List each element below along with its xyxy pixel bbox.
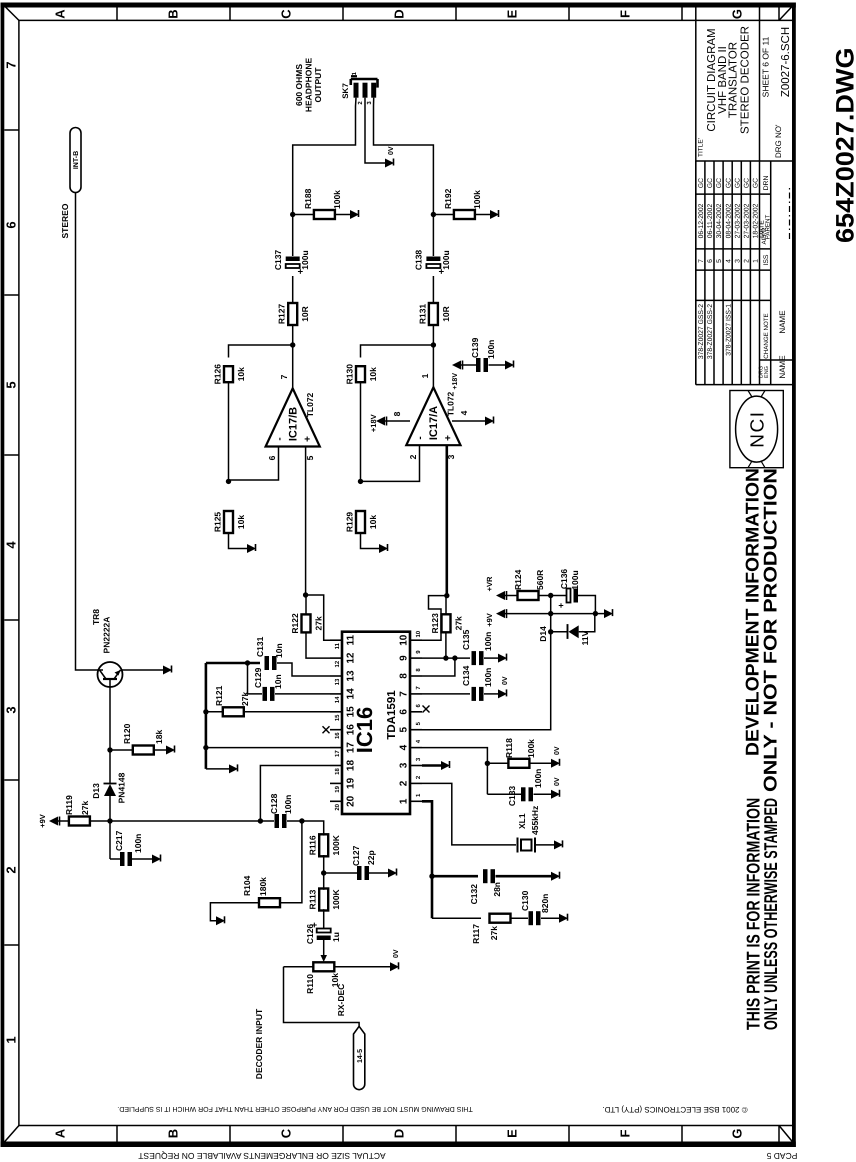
svg-text:ONLY UNLESS OTHERWISE STAMPED: ONLY UNLESS OTHERWISE STAMPED bbox=[760, 798, 781, 1030]
svg-text:600 OHMS: 600 OHMS bbox=[294, 64, 304, 106]
wire C131 to pin13 bbox=[277, 663, 330, 676]
svg-text:IC17/B: IC17/B bbox=[288, 407, 300, 441]
wire R104 to ground bbox=[210, 903, 259, 921]
svg-text:CHANGE NOTE: CHANGE NOTE bbox=[763, 313, 770, 358]
transistor TR8 bbox=[98, 662, 123, 687]
resistor R126 bbox=[224, 366, 233, 382]
capacitor C135 bbox=[472, 651, 477, 665]
wire C126 to R110 with arrow bbox=[323, 940, 325, 959]
svg-text:C127: C127 bbox=[351, 845, 361, 866]
wire C136 drop bbox=[551, 595, 566, 597]
wire pin11 jog bbox=[306, 595, 330, 640]
svg-text:100n: 100n bbox=[483, 632, 493, 651]
svg-text:16: 16 bbox=[346, 724, 357, 736]
node R188 bbox=[290, 212, 295, 217]
wire C127 to ground bbox=[369, 872, 388, 874]
wire pin2 route bbox=[422, 783, 516, 845]
svg-text:4: 4 bbox=[725, 259, 732, 263]
svg-text:5: 5 bbox=[415, 721, 422, 725]
svg-text:D13: D13 bbox=[91, 783, 101, 799]
resistor R110 bbox=[313, 962, 334, 971]
svg-text:R188: R188 bbox=[303, 188, 313, 209]
svg-text:3: 3 bbox=[399, 762, 410, 768]
capacitor C127 bbox=[357, 866, 362, 880]
svg-text:455kHz: 455kHz bbox=[530, 806, 540, 835]
wire R192 ground bbox=[475, 214, 490, 216]
svg-text:11: 11 bbox=[334, 642, 341, 649]
svg-text:C136: C136 bbox=[559, 569, 569, 590]
svg-text:12: 12 bbox=[334, 660, 341, 667]
svg-text:TRANSLATOR: TRANSLATOR bbox=[728, 42, 740, 118]
wire C132 drop bbox=[432, 875, 478, 878]
node C131 branch bbox=[245, 660, 250, 665]
svg-text:27k: 27k bbox=[80, 801, 90, 815]
svg-text:17: 17 bbox=[334, 750, 341, 757]
wire R122 pin12 bbox=[306, 643, 330, 658]
svg-text:C131: C131 bbox=[255, 636, 265, 657]
capacitor C131 bbox=[265, 656, 270, 670]
svg-text:DECODER INPUT: DECODER INPUT bbox=[254, 1008, 264, 1079]
wire +9V column bbox=[505, 613, 551, 615]
svg-text:1: 1 bbox=[4, 1036, 19, 1043]
svg-text:C138: C138 bbox=[414, 250, 424, 271]
wire R192 bbox=[433, 214, 454, 216]
svg-text:C217: C217 bbox=[114, 830, 124, 851]
svg-text:16: 16 bbox=[334, 732, 341, 739]
op-amp IC17/A TL072 bbox=[406, 387, 460, 445]
svg-text:13: 13 bbox=[346, 670, 357, 682]
svg-text:C139: C139 bbox=[470, 337, 480, 358]
resistor R113 bbox=[319, 889, 328, 911]
svg-text:22p: 22p bbox=[366, 850, 376, 865]
title block outline bbox=[696, 384, 792, 386]
svg-text:+18V: +18V bbox=[452, 373, 459, 390]
resistor R192 bbox=[454, 210, 475, 219]
svg-text:27-03-2002: 27-03-2002 bbox=[734, 203, 741, 238]
svg-text:4: 4 bbox=[4, 541, 19, 549]
ground R188 bbox=[350, 210, 359, 219]
svg-text:10R: 10R bbox=[441, 306, 451, 322]
svg-text:7: 7 bbox=[415, 686, 422, 690]
wire pin9 column bbox=[422, 657, 470, 659]
wire C133 branch bbox=[487, 793, 521, 795]
svg-text:E: E bbox=[505, 9, 520, 18]
wire R121 to pin15 bbox=[244, 711, 330, 713]
svg-text:PN2222A: PN2222A bbox=[102, 617, 112, 654]
resistor R123 bbox=[442, 614, 451, 632]
svg-text:R192: R192 bbox=[443, 188, 453, 209]
svg-text:6: 6 bbox=[707, 259, 714, 263]
wire node to C217 bbox=[109, 821, 111, 859]
svg-text:RX-DEC: RX-DEC bbox=[336, 984, 346, 1017]
svg-text:6: 6 bbox=[399, 709, 410, 715]
resistor R121 bbox=[223, 707, 244, 716]
ground R110 bbox=[390, 962, 399, 971]
wire C138 to jack bbox=[374, 106, 434, 256]
svg-text:0V: 0V bbox=[554, 777, 561, 786]
pin8 supply bbox=[385, 420, 410, 422]
capacitor C139 decoupling bbox=[452, 361, 461, 370]
svg-text:100n: 100n bbox=[533, 769, 543, 788]
crystal XL1 bbox=[517, 838, 519, 853]
ground R104 bbox=[216, 916, 225, 925]
svg-text:C132: C132 bbox=[469, 884, 479, 905]
svg-text:10R: 10R bbox=[300, 306, 310, 322]
svg-text:STEREO DECODER: STEREO DECODER bbox=[740, 26, 752, 134]
svg-text:9: 9 bbox=[399, 655, 410, 661]
node rail mid bbox=[548, 611, 553, 616]
svg-text:+: + bbox=[443, 435, 454, 441]
node C128 bottom bbox=[299, 818, 304, 823]
title block divider title cell bbox=[696, 160, 792, 162]
svg-text:7: 7 bbox=[279, 374, 289, 379]
ground pin3 bbox=[441, 761, 450, 770]
svg-text:A: A bbox=[53, 9, 68, 19]
wire pin17 drop bbox=[206, 747, 330, 749]
wire C128 bottom to R116 bbox=[302, 821, 324, 825]
svg-text:C134: C134 bbox=[461, 665, 471, 686]
svg-text:F: F bbox=[618, 1129, 633, 1137]
connector SK7 jack bbox=[351, 78, 378, 81]
svg-text:STEREO: STEREO bbox=[60, 203, 70, 238]
svg-text:100u: 100u bbox=[570, 570, 580, 589]
ground R192 bbox=[490, 210, 499, 219]
svg-text:C137: C137 bbox=[273, 250, 283, 271]
node pin9 R123 bbox=[443, 655, 448, 660]
svg-text:+18V: +18V bbox=[369, 414, 378, 432]
resistor R116 bbox=[319, 834, 328, 856]
svg-text:B: B bbox=[166, 9, 181, 18]
capacitor C128 bbox=[275, 814, 280, 828]
svg-text:10k: 10k bbox=[236, 515, 246, 529]
wire pin3 to ground bbox=[422, 764, 441, 767]
svg-text:DRN: DRN bbox=[763, 176, 770, 191]
svg-text:10n: 10n bbox=[274, 643, 284, 658]
svg-text:PCAD 5: PCAD 5 bbox=[766, 1151, 797, 1161]
svg-text:-: - bbox=[275, 437, 286, 440]
ground R125 bbox=[247, 544, 256, 553]
revision table grid bbox=[695, 161, 697, 385]
node R192 bbox=[431, 212, 436, 217]
svg-text:6: 6 bbox=[267, 455, 277, 460]
svg-text:GC: GC bbox=[753, 178, 760, 188]
node pin1 C132 bbox=[429, 874, 434, 879]
svg-text:NCI: NCI bbox=[748, 410, 769, 447]
ground R118 bbox=[551, 759, 560, 768]
svg-text:C129: C129 bbox=[253, 667, 263, 688]
svg-text:1u: 1u bbox=[331, 932, 341, 942]
svg-text:5: 5 bbox=[716, 259, 723, 263]
svg-text:B: B bbox=[166, 1129, 181, 1138]
resistor R120 bbox=[133, 746, 154, 755]
IC IC16 TDA1591 body bbox=[342, 632, 410, 814]
port INT-B bbox=[70, 128, 81, 193]
svg-text:0V: 0V bbox=[502, 676, 509, 685]
node R129 R130 bbox=[358, 479, 363, 484]
wire rail to ground node bbox=[551, 613, 596, 615]
svg-text:8: 8 bbox=[399, 673, 410, 679]
svg-text:R104: R104 bbox=[242, 875, 252, 896]
svg-text:4: 4 bbox=[399, 744, 410, 750]
svg-text:XL1: XL1 bbox=[517, 813, 527, 829]
svg-text:2: 2 bbox=[744, 259, 751, 263]
node bus pin17 bbox=[203, 745, 208, 750]
wire C133 to ground bbox=[534, 793, 552, 795]
svg-text:GC: GC bbox=[716, 178, 723, 188]
svg-text:4: 4 bbox=[459, 410, 469, 415]
svg-text:E: E bbox=[505, 1129, 520, 1138]
svg-text:GC: GC bbox=[707, 178, 714, 188]
svg-text:27k: 27k bbox=[314, 616, 324, 630]
resistor R124 bbox=[518, 591, 539, 600]
node pin9 pin8 bbox=[452, 655, 457, 660]
svg-text:R118: R118 bbox=[504, 738, 514, 758]
node R113-R116 bbox=[321, 870, 326, 875]
svg-text:378-Z0027 GSS-2: 378-Z0027 GSS-2 bbox=[707, 304, 714, 359]
svg-text:C133: C133 bbox=[507, 786, 517, 807]
border frame bbox=[1, 3, 5, 1148]
wire R117 to C130 bbox=[511, 917, 529, 919]
svg-text:+: + bbox=[303, 436, 314, 442]
svg-text:G: G bbox=[730, 9, 745, 19]
frame corner diagonals bbox=[4, 1126, 19, 1144]
svg-text:NAME: NAME bbox=[778, 355, 787, 378]
svg-text:2: 2 bbox=[4, 866, 19, 873]
svg-text:C135: C135 bbox=[461, 629, 471, 650]
resistor R119 bbox=[89, 820, 110, 822]
svg-text:SK7: SK7 bbox=[341, 83, 350, 99]
svg-text:HEADPHONE: HEADPHONE bbox=[304, 58, 314, 113]
wire C217 to ground bbox=[132, 858, 152, 860]
svg-text:19: 19 bbox=[346, 777, 357, 789]
svg-text:100n: 100n bbox=[283, 795, 293, 814]
svg-text:R124: R124 bbox=[513, 569, 523, 590]
capacitor C129 bbox=[263, 687, 268, 701]
resistor R127 bbox=[288, 303, 297, 325]
svg-text:7: 7 bbox=[698, 259, 705, 263]
wire C137 to jack bbox=[293, 106, 356, 256]
svg-text:R113: R113 bbox=[308, 889, 318, 909]
wire TR8 base bbox=[109, 687, 111, 750]
svg-text:1: 1 bbox=[351, 71, 358, 75]
wire R121 top bbox=[206, 711, 223, 713]
svg-text:Z0027-6.SCH: Z0027-6.SCH bbox=[780, 27, 792, 97]
svg-text:G: G bbox=[730, 1128, 745, 1138]
wire pin1 to R117 bbox=[432, 917, 481, 919]
wire pin6 input bbox=[229, 447, 279, 481]
capacitor C137 bbox=[286, 264, 300, 268]
wire pin1 bbox=[422, 801, 432, 918]
svg-text:R116: R116 bbox=[308, 835, 318, 855]
ground XL1 bbox=[554, 840, 563, 849]
svg-text:GC: GC bbox=[744, 178, 751, 188]
svg-text:0V: 0V bbox=[388, 146, 395, 155]
svg-text:10: 10 bbox=[399, 634, 410, 646]
supply +18V pin8 bbox=[376, 417, 385, 426]
wire R125 to ground bbox=[229, 533, 248, 549]
svg-text:28n: 28n bbox=[492, 882, 502, 897]
wire IC17B output bbox=[292, 336, 294, 388]
svg-text:18: 18 bbox=[334, 768, 341, 775]
wire C136 to node4 bbox=[578, 596, 595, 614]
grid letter ticks left and right bbox=[116, 1126, 118, 1142]
wire pin8 link bbox=[422, 658, 455, 676]
svg-text:F: F bbox=[618, 10, 633, 18]
svg-text:15: 15 bbox=[346, 706, 357, 718]
capacitor C130 bbox=[529, 911, 534, 925]
svg-text:100k: 100k bbox=[472, 190, 482, 209]
wire pin4 route bbox=[422, 748, 487, 795]
svg-text:8: 8 bbox=[415, 668, 422, 672]
node R125 R126 bbox=[226, 479, 231, 484]
wire pin3 input thick bbox=[445, 445, 448, 595]
wire pin5 input bbox=[305, 447, 307, 596]
node pin5 R122 bbox=[303, 592, 308, 597]
ground pin4 bbox=[485, 417, 494, 426]
wire C129 branch bbox=[248, 663, 263, 694]
SK7 pin wires bbox=[355, 98, 358, 106]
wire base to D13 bbox=[109, 750, 111, 783]
node R118 bbox=[485, 761, 490, 766]
svg-text:7: 7 bbox=[399, 691, 410, 697]
svg-text:14: 14 bbox=[346, 688, 357, 700]
node bus R121 bbox=[203, 709, 208, 714]
svg-text:-: - bbox=[415, 436, 426, 439]
wire C131 column bbox=[206, 662, 260, 665]
wire TR8 emitter to ground bbox=[121, 669, 164, 671]
wire R124 column bbox=[537, 595, 551, 597]
svg-text:10: 10 bbox=[415, 630, 422, 637]
ground C127 bbox=[388, 869, 397, 878]
svg-text:C: C bbox=[279, 1128, 294, 1138]
ground C133 bbox=[551, 790, 560, 799]
wire TR8 collector bbox=[98, 669, 103, 671]
ground C139 bbox=[505, 361, 514, 370]
svg-text:27k: 27k bbox=[454, 616, 464, 630]
svg-text:C: C bbox=[279, 9, 294, 19]
svg-text:11: 11 bbox=[346, 634, 357, 645]
resistor R188 bbox=[314, 210, 335, 219]
capacitor C138 bbox=[426, 264, 440, 268]
wire R122 to node5 bbox=[305, 595, 307, 614]
svg-text:8: 8 bbox=[392, 411, 402, 416]
svg-text:ISS: ISS bbox=[763, 254, 770, 265]
frame inner lines bbox=[18, 20, 20, 1125]
grid number ticks top bbox=[4, 944, 19, 946]
svg-text:2: 2 bbox=[357, 101, 364, 105]
svg-text:SHEET 6 OF 11: SHEET 6 OF 11 bbox=[761, 36, 771, 97]
no-connect X pin 16 bbox=[323, 726, 330, 733]
svg-text:1: 1 bbox=[415, 793, 422, 797]
svg-text:7: 7 bbox=[4, 61, 19, 68]
wire pin2 input bbox=[361, 445, 420, 481]
svg-text:PARENT: PARENT bbox=[765, 214, 772, 239]
svg-text:R129: R129 bbox=[345, 512, 355, 533]
wire R110 chain bbox=[284, 966, 391, 968]
node C128 top bbox=[258, 818, 263, 823]
ground C134 bbox=[498, 689, 507, 698]
wire R120 drop bbox=[110, 749, 166, 751]
svg-text:5: 5 bbox=[4, 381, 19, 388]
supply +9V bbox=[496, 609, 505, 618]
node ground cluster bbox=[593, 611, 598, 616]
ground R120 bbox=[166, 746, 175, 755]
svg-text:100k: 100k bbox=[332, 190, 342, 209]
svg-text:30-04-2002: 30-04-2002 bbox=[716, 203, 723, 238]
capacitor C134 bbox=[472, 687, 477, 701]
resistor R125 bbox=[224, 511, 233, 533]
svg-text:GC: GC bbox=[698, 178, 705, 188]
svg-text:100u: 100u bbox=[300, 250, 310, 269]
svg-text:R125: R125 bbox=[213, 512, 223, 533]
wire C132 to ground bbox=[496, 875, 552, 878]
resistor R104 bbox=[259, 898, 280, 907]
svg-text:4: 4 bbox=[415, 739, 422, 743]
svg-text:GC: GC bbox=[734, 178, 741, 188]
svg-text:R110: R110 bbox=[305, 974, 315, 994]
wire feedback B bbox=[229, 345, 293, 358]
svg-text:15: 15 bbox=[334, 714, 341, 721]
no-connect X pin 6 bbox=[423, 706, 430, 713]
node output A feedback bbox=[431, 342, 436, 347]
svg-text:14: 14 bbox=[334, 696, 341, 703]
svg-text:PN4148: PN4148 bbox=[117, 772, 127, 803]
svg-text:R122: R122 bbox=[290, 613, 300, 634]
wire RX-DEC to R110 bbox=[284, 967, 360, 1027]
ground C217 bbox=[152, 855, 161, 864]
capacitor C132 bbox=[483, 869, 488, 883]
wire pin7 C134 bbox=[422, 693, 470, 695]
node rail R124 bbox=[548, 593, 553, 598]
svg-text:18: 18 bbox=[346, 760, 357, 772]
wire C128 top to pin18 bbox=[260, 766, 330, 822]
capacitor C217 bbox=[120, 852, 125, 866]
svg-text:TR8: TR8 bbox=[91, 609, 101, 625]
svg-text:A: A bbox=[53, 1128, 68, 1138]
wire C135 ground bbox=[484, 657, 498, 659]
svg-text:3: 3 bbox=[4, 706, 19, 713]
wire D13 anode to node bbox=[109, 796, 111, 821]
svg-text:3: 3 bbox=[734, 259, 741, 263]
svg-text:100n: 100n bbox=[486, 340, 496, 359]
resistor R131 bbox=[429, 303, 438, 325]
svg-text:0V: 0V bbox=[393, 949, 400, 958]
svg-text:0V: 0V bbox=[554, 746, 561, 755]
svg-text:10k: 10k bbox=[368, 515, 378, 529]
NCI logo bbox=[730, 391, 783, 468]
svg-text:13: 13 bbox=[334, 678, 341, 685]
svg-text:06-11-2002: 06-11-2002 bbox=[707, 204, 714, 238]
svg-text:D: D bbox=[392, 1129, 407, 1138]
svg-text:R119: R119 bbox=[64, 795, 74, 815]
svg-text:27-03-2002: 27-03-2002 bbox=[744, 203, 751, 238]
svg-text:5: 5 bbox=[305, 455, 315, 460]
svg-text:C130: C130 bbox=[520, 890, 530, 911]
ground bus bbox=[229, 764, 238, 773]
svg-text:DRG NO': DRG NO' bbox=[774, 124, 783, 158]
IC16 top pin stubs bbox=[330, 639, 342, 641]
wire feedback A bbox=[361, 345, 434, 358]
svg-text:100K: 100K bbox=[331, 888, 341, 909]
ground C135 bbox=[498, 654, 507, 663]
svg-text:100n: 100n bbox=[483, 668, 493, 687]
svg-text:R121: R121 bbox=[214, 685, 224, 706]
svg-text:TITLE': TITLE' bbox=[698, 138, 705, 157]
wire D14 anode to node4 bbox=[579, 614, 595, 632]
svg-text:6: 6 bbox=[415, 703, 422, 707]
resistor R117 bbox=[490, 914, 511, 923]
wire pin10 jog bbox=[422, 596, 446, 641]
